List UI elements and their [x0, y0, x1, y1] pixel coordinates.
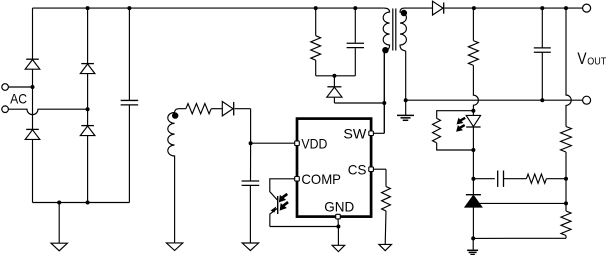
svg-text:SW: SW — [343, 125, 367, 141]
svg-text:CS: CS — [348, 161, 367, 177]
svg-text:V: V — [577, 50, 586, 68]
svg-text:AC: AC — [10, 90, 27, 106]
svg-text:GND: GND — [324, 199, 354, 215]
svg-text:VDD: VDD — [301, 135, 327, 151]
svg-text:COMP: COMP — [301, 171, 341, 187]
svg-text:OUT: OUT — [587, 57, 607, 68]
